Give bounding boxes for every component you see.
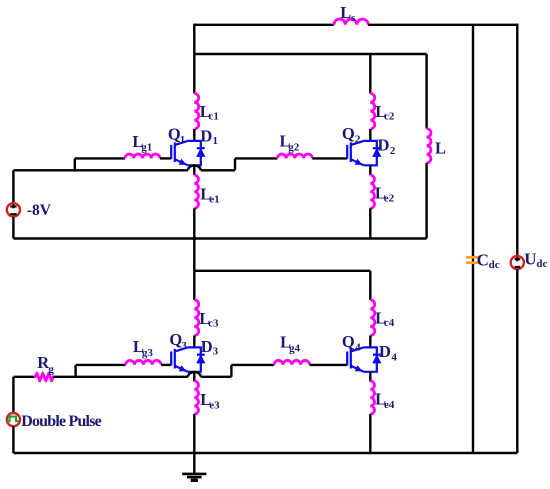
wire double-pulse bus (left lead) <box>13 376 35 378</box>
wire Q2 emitter lead <box>369 165 371 175</box>
source Double Pulse <box>7 413 20 426</box>
wire double-pulse source bottom lead <box>12 426 14 453</box>
inductor Lc2 <box>370 93 374 129</box>
wire top rail (right of Ls) <box>368 24 517 26</box>
capacitor Cdc <box>466 257 480 262</box>
wire phase column (Le1 to Lc3) <box>193 208 195 300</box>
svg-text:D: D <box>379 342 391 361</box>
svg-text:L: L <box>340 3 351 22</box>
svg-text:D: D <box>378 135 390 154</box>
svg-text:g3: g3 <box>142 347 154 359</box>
wire gate row Q2 <box>235 157 277 159</box>
svg-text:D: D <box>201 337 213 356</box>
wire Udc branch top <box>516 24 518 262</box>
resistor Rg <box>35 373 53 381</box>
svg-text:g: g <box>48 363 54 375</box>
wire Lg2 to Q2 gate <box>312 157 347 159</box>
svg-text:Q: Q <box>342 332 355 351</box>
inductor Ls <box>334 19 368 25</box>
wire -8V source bottom lead <box>12 217 14 238</box>
wire Q3 emitter lead <box>193 372 195 382</box>
inductor Le4 <box>370 381 374 414</box>
wire Q1 collector column <box>193 24 195 94</box>
svg-text:4: 4 <box>355 342 361 354</box>
inductor Lc3 <box>194 300 198 336</box>
svg-text:1: 1 <box>180 134 186 146</box>
svg-text:e1: e1 <box>209 194 219 206</box>
transistor Q4 (IGBT) <box>347 347 381 371</box>
inductor Lc1 <box>194 93 198 129</box>
inductor Le3 <box>194 381 198 414</box>
inductor Le2 <box>370 175 374 208</box>
wire Udc branch bottom <box>516 269 518 453</box>
svg-text:g2: g2 <box>288 141 300 153</box>
wire lower second rail <box>194 270 370 272</box>
wire -8V source top lead <box>12 170 14 208</box>
wire double-pulse bus (middle) <box>53 376 188 378</box>
svg-text:D: D <box>200 126 212 145</box>
svg-text:3: 3 <box>181 340 187 352</box>
ground <box>182 453 206 480</box>
svg-text:g4: g4 <box>289 342 301 354</box>
wire Q4 emitter lead <box>369 372 371 382</box>
inductor Lg1 <box>125 154 160 158</box>
transistor Q1 (IGBT) <box>171 141 205 165</box>
wire Cdc branch <box>472 25 474 453</box>
svg-text:4: 4 <box>391 352 397 364</box>
wire -8V bus (left) <box>13 169 188 171</box>
svg-text:2: 2 <box>390 145 396 157</box>
wire gate step Q4 <box>230 365 232 377</box>
wire Lg3 to Q3 gate <box>161 364 171 366</box>
svg-text:s: s <box>351 12 356 24</box>
wire top rail (left of Ls) <box>194 24 334 26</box>
wire gate step Q3 <box>74 365 76 377</box>
wire bottom rail <box>13 452 517 454</box>
svg-text:dc: dc <box>489 259 500 271</box>
wire gate row Q3 <box>76 364 126 366</box>
voltage source -8V <box>7 203 20 216</box>
svg-text:Double Pulse: Double Pulse <box>21 413 101 430</box>
voltage source Udc <box>511 256 524 269</box>
inductor Lg4 <box>274 360 310 364</box>
wire Q4 collector column <box>369 271 371 300</box>
wire Q2 emitter to mid rail <box>369 208 371 238</box>
wire gate step Q2 <box>234 158 236 170</box>
svg-text:c4: c4 <box>384 317 395 329</box>
svg-text:c3: c3 <box>208 318 219 330</box>
svg-text:g1: g1 <box>141 142 152 154</box>
wire Lg4 to Q4 gate <box>310 364 348 366</box>
wire gate row Q1 <box>75 157 125 159</box>
svg-text:e3: e3 <box>209 399 220 411</box>
wire mid rail <box>13 237 426 239</box>
wire Lg1 to Q1 gate <box>160 157 171 159</box>
svg-text:C: C <box>477 250 489 269</box>
wire gate row Q4 <box>231 364 274 366</box>
wire second rail <box>194 53 426 55</box>
wire Q1 emitter lead <box>193 165 195 175</box>
svg-text:dc: dc <box>536 258 547 270</box>
svg-text:-8V: -8V <box>27 202 52 219</box>
wire double-pulse bus (right) <box>201 376 232 378</box>
svg-text:Q: Q <box>342 124 355 143</box>
inductor Lc4 <box>370 300 374 336</box>
svg-text:2: 2 <box>355 134 361 146</box>
wire crossover hop at Q1 emitter <box>188 166 201 171</box>
transistor Q2 (IGBT) <box>347 141 381 165</box>
wire -8V bus (right) <box>201 169 235 171</box>
inductor Le1 <box>194 175 198 208</box>
transistor Q3 (IGBT) <box>171 347 205 371</box>
wire Q4 emitter to bottom rail <box>369 414 371 453</box>
svg-text:c1: c1 <box>209 111 219 123</box>
inductor L (load) <box>427 129 431 163</box>
svg-text:e2: e2 <box>384 193 395 205</box>
inductor Lg3 <box>126 360 162 364</box>
svg-text:c2: c2 <box>384 111 395 123</box>
wire Q4 collector lead <box>369 336 371 348</box>
svg-text:L: L <box>435 139 446 158</box>
wire crossover hop at Q3 emitter <box>188 372 201 377</box>
wire Q2 collector column <box>369 54 371 93</box>
wire Q2 collector lead <box>369 129 371 141</box>
wire gate step Q1 <box>74 158 76 170</box>
wire Q3 collector lead <box>193 336 195 348</box>
wire double-pulse source top lead <box>12 377 14 413</box>
svg-text:3: 3 <box>213 346 219 358</box>
svg-text:e4: e4 <box>384 399 395 411</box>
svg-text:1: 1 <box>213 135 219 147</box>
wire Q3 emitter to bottom rail <box>193 414 195 453</box>
wire load branch upper <box>425 54 427 129</box>
wire Q1 collector lead <box>193 129 195 141</box>
inductor Lg2 <box>277 154 312 158</box>
svg-text:U: U <box>524 250 536 269</box>
wire load branch lower <box>425 163 427 239</box>
